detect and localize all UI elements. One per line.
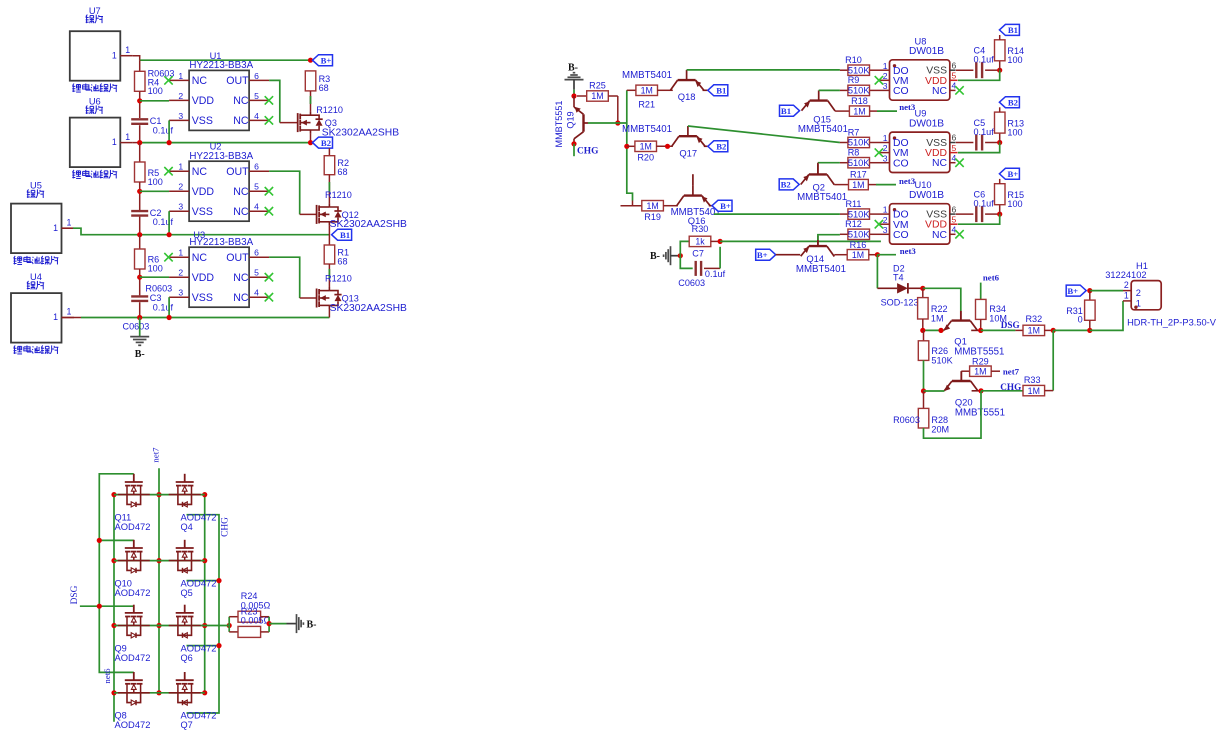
- svg-text:AOD472: AOD472: [115, 521, 151, 532]
- svg-text:6: 6: [254, 71, 259, 81]
- wire pin6 to C6: [956, 213, 974, 215]
- wire U3 OUT to Q13 gate: [269, 257, 316, 298]
- svg-text:U6: U6: [89, 97, 101, 107]
- svg-text:0.1uf: 0.1uf: [974, 198, 995, 208]
- svg-text:100: 100: [1007, 199, 1022, 209]
- svg-text:R1210: R1210: [325, 190, 352, 200]
- wire R30 long line: [720, 240, 881, 242]
- svg-text:2: 2: [883, 71, 888, 81]
- svg-text:NC: NC: [233, 292, 249, 304]
- svg-text:1M: 1M: [1028, 386, 1040, 396]
- wire Q19 emitter up: [573, 96, 575, 107]
- node CHG row3: [216, 643, 221, 648]
- battery tab U5 镍片: [11, 181, 62, 265]
- svg-text:1: 1: [178, 162, 183, 172]
- svg-text:B1: B1: [716, 86, 726, 96]
- net flag B2: [313, 137, 333, 148]
- net flag B1 at Q15: [780, 105, 800, 116]
- svg-text:DW01B: DW01B: [909, 190, 944, 201]
- svg-text:1M: 1M: [852, 180, 864, 190]
- node VDD junction: [997, 212, 1002, 217]
- svg-text:1: 1: [112, 137, 117, 147]
- svg-text:C0603: C0603: [123, 322, 150, 332]
- transistor Q17 MMBT5401: [622, 124, 705, 158]
- transistor Q18 MMBT5401: [622, 70, 704, 102]
- svg-text:R0603: R0603: [893, 415, 920, 425]
- svg-text:MMBT5401: MMBT5401: [796, 264, 846, 275]
- node source bus row2: [111, 558, 116, 563]
- transistor Q4 AOD472: [169, 474, 217, 532]
- svg-text:0.1uf: 0.1uf: [705, 269, 726, 279]
- svg-text:1M: 1M: [853, 106, 865, 116]
- node U1 VDD tap: [137, 98, 142, 103]
- svg-text:NC: NC: [932, 230, 948, 241]
- svg-text:4: 4: [952, 81, 957, 91]
- svg-text:U7: U7: [89, 6, 101, 16]
- wire drain bus: [204, 495, 206, 693]
- svg-text:NC: NC: [932, 86, 948, 97]
- wire R22 to bottom row: [922, 319, 924, 330]
- op-amp U1 HY2213-BB3A battery balance IC: [164, 51, 273, 130]
- capacitor C7 0.1uf: [678, 247, 725, 288]
- svg-text:MMBT5551: MMBT5551: [955, 407, 1005, 418]
- svg-text:B2: B2: [716, 142, 726, 152]
- wire Q16 emitter to flag: [709, 205, 712, 207]
- node DSG row2: [97, 538, 102, 543]
- svg-text:20M: 20M: [931, 425, 949, 435]
- resistor R8 510K: [840, 148, 882, 168]
- wire C2 to B1 line: [139, 217, 141, 235]
- wire Q14 base riser: [818, 235, 840, 246]
- wire Q2 base to R8: [818, 162, 840, 164]
- svg-text:3: 3: [178, 288, 183, 298]
- svg-text:5: 5: [952, 71, 957, 81]
- resistor R21 1M: [627, 85, 673, 109]
- wire VDD3 net: [140, 276, 169, 278]
- wire U1 OUT to Q3 gate: [269, 80, 298, 122]
- svg-text:68: 68: [319, 83, 329, 93]
- transistor Q2 MMBT5401: [797, 164, 847, 203]
- node U3 VDD tap: [137, 275, 142, 280]
- wire pin6 to C4: [956, 69, 974, 71]
- svg-text:2: 2: [178, 91, 183, 101]
- wire U2 OUT to Q12 gate: [269, 171, 316, 214]
- svg-text:6: 6: [254, 248, 259, 258]
- resistor R22 1M: [918, 288, 948, 323]
- resistor R33 1M: [1023, 375, 1053, 396]
- svg-text:1M: 1M: [640, 142, 652, 152]
- svg-text:NC: NC: [233, 206, 249, 218]
- resistor R16 1M: [834, 240, 877, 260]
- wire U1 VSS to B2: [168, 120, 170, 142]
- resistor R24 0.005: [229, 591, 270, 632]
- node Q20 collector junction: [978, 388, 983, 393]
- wire row3 to shunt: [205, 625, 230, 627]
- svg-text:5: 5: [952, 214, 957, 224]
- resistor R19 1M: [621, 201, 678, 222]
- wire R25 to Q19 base line: [617, 96, 619, 123]
- resistor R11 510K: [840, 199, 882, 219]
- resistor R25 1M: [577, 81, 618, 102]
- node B2 junction: [308, 140, 313, 145]
- node Q19 emitter junction: [571, 93, 576, 98]
- svg-text:Q7: Q7: [181, 720, 193, 730]
- svg-text:3: 3: [883, 81, 888, 91]
- svg-text:MMBT5551: MMBT5551: [554, 100, 564, 147]
- svg-text:HY2213-BB3A: HY2213-BB3A: [189, 237, 253, 248]
- node shunt right junction: [267, 621, 272, 626]
- wire R34 to bottom row: [980, 319, 982, 330]
- node Q1 collector junction: [978, 328, 983, 333]
- transistor Q5 AOD472: [169, 540, 217, 598]
- pin 1 stub of U7: [120, 45, 133, 56]
- svg-text:R12: R12: [845, 219, 862, 229]
- svg-text:R26: R26: [931, 346, 948, 356]
- svg-text:SK2302AA2SHB: SK2302AA2SHB: [330, 303, 407, 314]
- svg-text:R18: R18: [851, 96, 868, 106]
- svg-text:U9: U9: [915, 109, 927, 119]
- svg-text:0.1uf: 0.1uf: [153, 217, 174, 227]
- wire R12 tap to Q14: [817, 234, 819, 236]
- wire B2 flag to R2: [328, 148, 330, 156]
- resistor R18 1M: [835, 96, 897, 116]
- wire R3 to Q3 drain: [310, 91, 312, 112]
- svg-text:B-: B-: [135, 349, 145, 360]
- node drain bus row2: [202, 558, 207, 563]
- svg-text:R10: R10: [845, 55, 862, 65]
- svg-text:net7: net7: [1003, 367, 1020, 377]
- battery tab U7 镍片: [70, 6, 121, 92]
- net flag B2 at Q17: [708, 141, 728, 152]
- wire bias bus vertical: [627, 90, 633, 200]
- svg-text:CO: CO: [893, 230, 909, 241]
- pin 1 stub of U4: [62, 307, 75, 318]
- resistor R13 100: [995, 112, 1025, 142]
- svg-text:B+: B+: [321, 56, 332, 66]
- svg-text:Q6: Q6: [181, 653, 193, 663]
- wire U6 pin to chain: [133, 142, 140, 144]
- svg-text:B-: B-: [650, 251, 660, 262]
- node base junction: [615, 120, 620, 125]
- transistor Q9 AOD472: [115, 605, 151, 663]
- svg-text:R20: R20: [637, 152, 654, 162]
- svg-text:0: 0: [1078, 314, 1083, 324]
- svg-text:Q14: Q14: [806, 253, 824, 264]
- wire B1 net line: [140, 234, 330, 236]
- battery tab U6 镍片: [70, 97, 121, 179]
- resistor R30 1k: [680, 224, 720, 256]
- node B2/chain junction: [137, 140, 142, 145]
- wire B+ flag to Q14 emitter: [776, 254, 801, 256]
- svg-text:Q18: Q18: [678, 91, 696, 102]
- wire DSG row2 tap: [99, 539, 134, 541]
- transistor Q13 SK2302AA2SHB: [317, 273, 407, 313]
- wire R28 bottom loop to Q20 collector: [924, 391, 982, 438]
- svg-text:1: 1: [67, 217, 72, 227]
- svg-text:T4: T4: [893, 272, 904, 282]
- power B- symbol at C7: [650, 246, 680, 265]
- wire Q18 emitter to flag: [703, 89, 708, 91]
- op-amp U3 HY2213-BB3A battery balance IC: [164, 230, 273, 307]
- wire U3 VSS to B-: [168, 297, 170, 317]
- node net7 bus row2: [156, 558, 161, 563]
- svg-text:6: 6: [952, 60, 957, 70]
- svg-text:OUT: OUT: [226, 252, 249, 264]
- transistor Q19 MMBT5551: [554, 100, 588, 147]
- svg-text:1: 1: [53, 312, 58, 322]
- wire R16 to net3: [877, 254, 896, 256]
- svg-text:NC: NC: [192, 166, 208, 178]
- wire B- net line: [81, 317, 329, 319]
- svg-text:R34: R34: [989, 304, 1006, 314]
- resistor R1 68: [324, 245, 349, 267]
- capacitor C1 0.1uf: [131, 116, 173, 135]
- resistor R23 0.005: [229, 606, 270, 637]
- svg-text:68: 68: [337, 167, 347, 177]
- svg-text:NC: NC: [233, 186, 249, 198]
- wire node to pin5: [958, 143, 1000, 153]
- svg-text:1M: 1M: [852, 250, 864, 260]
- svg-text:DSG: DSG: [70, 585, 80, 604]
- node drain bus row1: [202, 492, 207, 497]
- wire node to pin5: [958, 70, 1000, 80]
- wire bottom to H1 pin1: [1090, 301, 1123, 331]
- transistor Q15 MMBT5401: [798, 90, 848, 134]
- wire DSG gate bus: [99, 474, 134, 673]
- wire Q3 source to B2: [310, 134, 312, 143]
- svg-text:R1210: R1210: [316, 105, 343, 115]
- svg-text:4: 4: [254, 288, 259, 298]
- node drain bus row3: [202, 623, 207, 628]
- wire chain R6 top: [139, 235, 141, 249]
- svg-text:HY2213-BB3A: HY2213-BB3A: [189, 60, 253, 71]
- svg-text:NC: NC: [233, 272, 249, 284]
- pin 1 stub of U6: [120, 132, 133, 143]
- resistor R31 0: [1066, 291, 1095, 331]
- svg-text:1: 1: [112, 50, 117, 60]
- svg-text:B+: B+: [757, 250, 768, 260]
- wire Q19 base line: [588, 122, 627, 124]
- wire R1 to Q13 drain: [328, 264, 330, 287]
- wire R14 to flag: [999, 35, 1001, 40]
- svg-text:R16: R16: [850, 240, 867, 250]
- battery tab U4 镍片: [11, 272, 62, 354]
- wire R15 to flag: [999, 179, 1001, 184]
- capacitor C4 0.1uf: [974, 46, 995, 79]
- svg-text:B2: B2: [781, 180, 791, 190]
- resistor R2 68: [324, 156, 349, 178]
- wire B- to Q19 node: [573, 90, 575, 96]
- svg-text:R7: R7: [848, 127, 860, 137]
- svg-text:MMBT5401: MMBT5401: [798, 124, 848, 135]
- svg-text:AOD472: AOD472: [181, 710, 217, 721]
- svg-text:B+: B+: [1008, 169, 1019, 179]
- wire CHG row3 tap: [187, 645, 220, 647]
- node Q17 collector junction: [665, 144, 670, 149]
- svg-text:B+: B+: [720, 201, 731, 211]
- wire collector to CHG/R33: [981, 390, 1023, 392]
- svg-text:5: 5: [254, 182, 259, 192]
- svg-text:1M: 1M: [591, 91, 603, 101]
- svg-text:VDD: VDD: [192, 272, 215, 284]
- capacitor C5 0.1uf: [974, 118, 995, 151]
- wire row4 source-drain: [114, 692, 205, 694]
- svg-text:4: 4: [254, 111, 259, 121]
- transistor Q12 SK2302AA2SHB: [317, 190, 407, 230]
- wire C6 to node: [985, 213, 1000, 215]
- capacitor C3 0.1uf: [131, 293, 173, 312]
- wire chain R5 top: [139, 143, 141, 162]
- svg-text:0.1uf: 0.1uf: [153, 302, 174, 312]
- resistor R26 510K: [918, 330, 952, 365]
- svg-text:510K: 510K: [848, 65, 871, 75]
- svg-text:MMBT5401: MMBT5401: [797, 192, 847, 203]
- resistor R29 1M: [961, 356, 1000, 376]
- svg-text:4: 4: [952, 153, 957, 163]
- svg-text:HDR-TH_2P-P3.50-V: HDR-TH_2P-P3.50-V: [1127, 318, 1217, 328]
- svg-text:HY2213-BB3A: HY2213-BB3A: [189, 151, 253, 162]
- svg-text:VSS: VSS: [192, 115, 213, 127]
- net flag B2: [999, 97, 1019, 108]
- svg-text:510K: 510K: [931, 356, 952, 366]
- svg-text:MMBT5401: MMBT5401: [622, 70, 672, 81]
- node R31 bottom junction: [1087, 328, 1092, 333]
- node B+ H1 junction: [1087, 288, 1092, 293]
- wire to DSG/R32: [981, 329, 1016, 331]
- wire B+ net line: [140, 59, 311, 61]
- svg-text:100: 100: [148, 177, 163, 187]
- node VDD junction: [997, 140, 1002, 145]
- transistor Q3 SK2302AA2SHB: [298, 105, 400, 138]
- svg-text:100: 100: [148, 264, 163, 274]
- node R30 output junction: [718, 239, 723, 244]
- svg-text:100: 100: [148, 86, 163, 96]
- svg-text:B2: B2: [321, 138, 331, 148]
- svg-text:SK2302AA2SHB: SK2302AA2SHB: [322, 128, 399, 139]
- node source bus row3: [111, 623, 116, 628]
- wire row3 source-drain: [114, 625, 205, 627]
- svg-text:NC: NC: [192, 75, 208, 87]
- node B+ junction: [308, 58, 313, 63]
- svg-text:AOD472: AOD472: [115, 652, 151, 663]
- transistor Q8 AOD472: [115, 672, 151, 730]
- svg-text:net3: net3: [899, 176, 916, 186]
- wire B+ to H1 pin2: [1090, 290, 1123, 292]
- svg-text:AOD472: AOD472: [181, 642, 217, 653]
- wire C5 to node: [985, 142, 1000, 144]
- svg-text:net6: net6: [102, 668, 112, 684]
- node drain bus row4: [202, 690, 207, 695]
- svg-text:2: 2: [178, 182, 183, 192]
- wire node to pin5: [958, 214, 1000, 224]
- svg-text:DSG: DSG: [1001, 320, 1020, 330]
- wire B2 net line: [140, 142, 311, 144]
- resistor R12 510K: [840, 219, 882, 239]
- resistor R3 68: [305, 71, 330, 93]
- svg-text:1k: 1k: [695, 237, 705, 247]
- svg-text:Q19: Q19: [566, 111, 576, 128]
- svg-text:R11: R11: [845, 199, 861, 209]
- node D2 cathode junction: [920, 286, 925, 291]
- node source bus row1: [111, 492, 116, 497]
- wire U7 pin to B+ node: [133, 56, 140, 61]
- svg-text:5: 5: [254, 268, 259, 278]
- svg-text:R30: R30: [692, 224, 709, 234]
- transistor Q20 MMBT5551: [944, 371, 1005, 418]
- wire C1 to B2 line: [139, 125, 141, 142]
- svg-text:U10: U10: [915, 180, 932, 190]
- svg-text:B1: B1: [1008, 25, 1018, 35]
- wire shunt to B-: [269, 623, 286, 625]
- net flag B+: [999, 168, 1019, 179]
- node VDD junction: [997, 68, 1002, 73]
- resistor R32 1M: [1015, 314, 1053, 335]
- wire U4 pin to B- line: [62, 317, 82, 319]
- node shunt left junction: [227, 623, 232, 628]
- svg-text:net3: net3: [900, 246, 917, 256]
- wire net6 to R34: [980, 283, 982, 300]
- svg-text:C7: C7: [692, 249, 704, 259]
- svg-text:1: 1: [178, 248, 183, 258]
- svg-text:B2: B2: [1008, 98, 1018, 108]
- svg-text:R32: R32: [1025, 314, 1042, 324]
- op-amp U10 DW01B protection IC: [875, 180, 964, 244]
- svg-text:OUT: OUT: [226, 75, 249, 87]
- svg-text:R17: R17: [850, 170, 867, 180]
- resistor R14 100: [995, 40, 1025, 70]
- wire Q13 source to B- line: [328, 309, 330, 318]
- op-amp U9 DW01B protection IC: [875, 109, 964, 173]
- wire C4 to node: [985, 69, 1000, 71]
- svg-text:Q17: Q17: [679, 147, 697, 158]
- svg-text:1M: 1M: [931, 314, 944, 324]
- svg-text:U4: U4: [30, 272, 42, 282]
- svg-text:R19: R19: [644, 212, 661, 222]
- net flag B+ at H1: [1066, 285, 1086, 296]
- svg-text:5: 5: [254, 91, 259, 101]
- svg-text:0.1uf: 0.1uf: [974, 55, 995, 65]
- svg-text:B-: B-: [307, 620, 317, 631]
- svg-text:31224102: 31224102: [1105, 270, 1146, 280]
- svg-text:1M: 1M: [641, 86, 653, 96]
- power B- symbol right: [287, 614, 317, 633]
- op-amp U2 HY2213-BB3A battery balance IC: [164, 142, 273, 222]
- net flag B+ at Q14: [756, 249, 776, 260]
- svg-text:CO: CO: [893, 158, 909, 169]
- svg-text:AOD472: AOD472: [181, 512, 217, 523]
- wire row1 source-drain: [114, 494, 205, 496]
- node DSG row3: [97, 604, 102, 609]
- wire R5 to C2: [139, 182, 141, 210]
- wire VDD2 net: [140, 190, 169, 192]
- svg-text:AOD472: AOD472: [115, 587, 151, 598]
- wire down to R33: [1052, 330, 1054, 390]
- resistor R20 1M: [627, 141, 673, 162]
- wire source bus net6: [113, 495, 115, 722]
- svg-text:2: 2: [883, 143, 888, 153]
- svg-text:C0603: C0603: [678, 278, 705, 288]
- resistor R34 10M: [976, 299, 1008, 323]
- svg-text:R1210: R1210: [325, 273, 352, 283]
- wire U2 VSS to B1: [168, 211, 170, 235]
- wire Q12 source through B1 to R1: [328, 225, 330, 245]
- net flag B2 at Q2: [779, 179, 799, 190]
- svg-text:4: 4: [952, 225, 957, 235]
- wire R16 junction down to D2: [876, 255, 878, 289]
- resistor R5 100: [135, 162, 163, 187]
- transistor Q1 MMBT5551: [944, 311, 1004, 358]
- resistor R15 100: [995, 184, 1025, 214]
